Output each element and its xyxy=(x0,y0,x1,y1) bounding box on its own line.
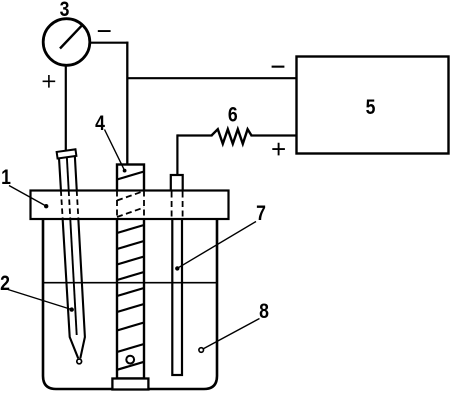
electrode 2 outer left tube line xyxy=(59,158,78,358)
leader dot for 4 xyxy=(123,169,127,173)
meter needle xyxy=(60,25,83,49)
label 2 xyxy=(0,272,10,296)
svg-text:5: 5 xyxy=(366,96,376,120)
leader open dot for 8 xyxy=(199,348,204,353)
svg-text:8: 8 xyxy=(259,300,269,324)
wire resistor to corner xyxy=(177,134,212,136)
wire branch to box 5 minus terminal xyxy=(127,77,297,79)
leader dot for 2 xyxy=(70,307,74,311)
label 7 xyxy=(256,202,266,226)
wire down to electrode 7 xyxy=(176,134,178,176)
liquid level line xyxy=(43,282,217,284)
wire vertical corner down to helix electrode xyxy=(126,42,128,165)
leader line for 2 xyxy=(8,290,72,310)
electrode 7 hidden edges in lid (dashed) xyxy=(172,192,183,220)
wire box 5 plus to resistor xyxy=(251,134,297,136)
minus sign at box 5 xyxy=(272,66,285,68)
svg-text:4: 4 xyxy=(95,112,105,136)
label 3 xyxy=(60,0,70,21)
leader line for 4 xyxy=(105,130,125,171)
plus sign at box 5 xyxy=(272,143,285,156)
minus sign at meter xyxy=(98,30,111,32)
label 6 xyxy=(228,103,238,127)
leader line for 8 xyxy=(202,319,260,350)
svg-text:3: 3 xyxy=(60,0,70,21)
leader dot for 7 xyxy=(175,266,179,270)
label 8 xyxy=(259,300,269,324)
helix winding hatch xyxy=(117,172,144,370)
electrode 2 inner middle line xyxy=(67,158,77,335)
label 5 xyxy=(366,96,376,120)
electrode 2 tip circle xyxy=(77,359,82,364)
svg-text:7: 7 xyxy=(256,202,266,226)
wire meter right to corner xyxy=(89,42,128,44)
svg-text:6: 6 xyxy=(228,103,238,127)
voltmeter U1 (meter 3) xyxy=(43,19,90,66)
helix electrode 4 body xyxy=(117,165,144,379)
leader line for 1 xyxy=(9,186,46,207)
electrode 2 (reference electrode) cap xyxy=(57,149,77,158)
plus sign at meter xyxy=(43,75,56,88)
box 5 (power source) xyxy=(297,57,449,154)
helix foot xyxy=(112,379,148,390)
helix hole circle xyxy=(126,356,134,364)
label 1 xyxy=(1,166,11,190)
leader line for 7 xyxy=(177,222,256,269)
lid 1 xyxy=(31,191,229,220)
helix hidden edges in lid (dashed) xyxy=(117,191,144,220)
electrode 2 hidden lines in lid (dashed) xyxy=(61,191,79,220)
beaker vessel 8 xyxy=(43,218,217,389)
electrode 7 rod xyxy=(172,192,182,376)
label 4 xyxy=(95,112,105,136)
leader dot for 1 xyxy=(44,204,48,208)
resistor R6 zigzag xyxy=(212,129,252,144)
svg-text:2: 2 xyxy=(0,272,10,296)
electrode 2 outer right tube line xyxy=(75,157,85,358)
electrode 7 cap xyxy=(171,175,183,192)
wire meter bottom to electrode 2 xyxy=(65,64,67,151)
